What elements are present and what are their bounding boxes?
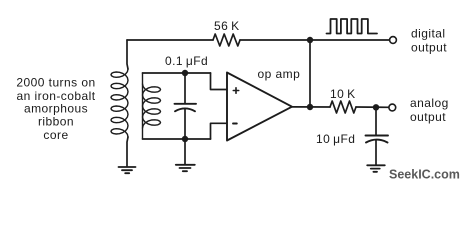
resistor R 56K xyxy=(213,34,240,46)
resistor R 10K xyxy=(330,101,356,113)
svg-text:SeekIC.com: SeekIC.com xyxy=(389,168,460,182)
node junction tank top to capacitor xyxy=(182,70,188,76)
svg-text:core: core xyxy=(43,128,68,142)
square wave symbol xyxy=(327,19,378,34)
svg-text:op amp: op amp xyxy=(258,67,301,81)
capacitor C 10uFd top lead xyxy=(375,107,377,134)
wire 10K to analog output terminal xyxy=(356,106,389,108)
wire op-amp output xyxy=(292,106,330,108)
op-amp minus input symbol xyxy=(233,123,237,125)
digital output terminal xyxy=(390,37,397,44)
svg-text:analog: analog xyxy=(410,96,449,110)
wire tank top rail xyxy=(143,72,211,74)
ground primary xyxy=(119,167,136,173)
transformer secondary winding xyxy=(143,73,161,139)
ground tank xyxy=(176,165,195,171)
wire top feedback rail left segment xyxy=(127,39,213,41)
wire op-amp inverting input lead xyxy=(211,123,227,139)
node junction analog output filter xyxy=(373,104,379,110)
analog output terminal xyxy=(389,104,396,111)
node junction output feedback xyxy=(307,104,313,110)
svg-text:output: output xyxy=(410,110,446,124)
capacitor C 0.1uFd bottom lead xyxy=(184,109,186,140)
wire top rail from resistor to digital output terminal xyxy=(240,39,389,41)
node junction tank bottom to capacitor xyxy=(182,136,188,142)
capacitor C 0.1uFd top lead xyxy=(184,73,186,103)
wire tank bottom rail xyxy=(143,138,211,140)
capacitor C 0.1uFd xyxy=(175,104,197,112)
wire tank ground drop xyxy=(184,139,186,164)
node junction top rail to op-amp output xyxy=(307,37,313,43)
svg-text:amorphous: amorphous xyxy=(24,101,88,115)
wire feedback vertical xyxy=(309,40,311,107)
transformer primary winding xyxy=(111,69,128,137)
svg-text:digital: digital xyxy=(411,27,446,41)
ground analog filter xyxy=(367,165,385,172)
wire op-amp noninverting input lead xyxy=(211,73,227,90)
op-amp plus input symbol xyxy=(233,88,238,93)
wire primary top lead xyxy=(127,40,128,69)
svg-text:2000 turns on: 2000 turns on xyxy=(16,75,95,89)
wire primary bottom lead xyxy=(127,137,128,166)
svg-text:10 μFd: 10 μFd xyxy=(316,132,355,146)
svg-text:ribbon: ribbon xyxy=(38,115,74,129)
svg-text:10 K: 10 K xyxy=(330,87,356,101)
capacitor C 10uFd xyxy=(366,136,389,143)
op-amp U1 xyxy=(227,73,292,141)
svg-text:0.1 μFd: 0.1 μFd xyxy=(165,54,208,68)
svg-text:56 K: 56 K xyxy=(214,19,240,33)
capacitor C 10uFd bottom lead xyxy=(375,140,377,165)
svg-text:output: output xyxy=(411,41,447,55)
